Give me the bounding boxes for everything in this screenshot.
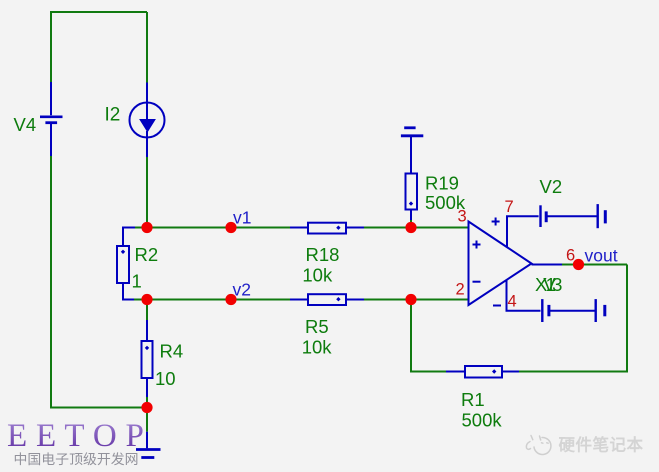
op-amp X3 [469, 222, 532, 306]
wire I2 vertical upper [146, 12, 148, 83]
battery V1 [542, 299, 605, 322]
wire v1 row right [364, 227, 469, 229]
svg-text:2: 2 [456, 280, 465, 298]
node junction R5-R1 [405, 294, 416, 305]
resistor R4 [142, 320, 153, 397]
svg-text:R5: R5 [305, 316, 329, 337]
battery V4 [40, 82, 63, 156]
resistor R2 [117, 228, 147, 300]
svg-text:R18: R18 [306, 244, 340, 265]
wire v2 row right [364, 299, 469, 301]
wire node to R1 [411, 300, 446, 372]
wire bottom right horizontal [519, 371, 628, 373]
svg-text:3: 3 [458, 207, 467, 225]
svg-text:V2: V2 [540, 176, 563, 197]
svg-text:E E T O P: E E T O P [7, 418, 144, 454]
svg-text:10k: 10k [302, 265, 333, 286]
wire I2 to node [146, 157, 148, 228]
svg-text:硬件笔记本: 硬件笔记本 [559, 435, 644, 455]
wire left vertical upper [50, 11, 52, 82]
svg-text:10k: 10k [302, 336, 333, 357]
ground flipped above R19 [401, 128, 423, 174]
resistor R1 [446, 366, 519, 378]
wire bottom-left horizontal [50, 407, 147, 409]
current source I2 [130, 83, 165, 158]
svg-text:R1: R1 [461, 389, 485, 410]
svg-text:7: 7 [505, 198, 514, 216]
svg-text:4: 4 [508, 292, 517, 310]
wire R19 to node [410, 220, 412, 228]
svg-text:中国电子顶级开发网: 中国电子顶级开发网 [14, 451, 139, 467]
pin 7 wire [492, 216, 539, 247]
resistor R18 [290, 223, 364, 234]
wire node2 to R4 [146, 300, 148, 321]
svg-text:vout: vout [585, 246, 618, 266]
node junction v2 [225, 294, 236, 305]
ground [136, 432, 161, 458]
resistor R5 [290, 294, 364, 305]
svg-text:R2: R2 [135, 244, 159, 265]
svg-text:V4: V4 [14, 114, 37, 135]
wire left vertical lower [50, 156, 52, 409]
wire v1 row left [147, 227, 290, 229]
watermark icon [526, 436, 551, 455]
svg-text:R4: R4 [160, 340, 184, 361]
pin 4 wire [493, 280, 541, 311]
wire R4 to node3 [146, 397, 148, 408]
wire node3 to ground [146, 408, 148, 432]
svg-text:1: 1 [132, 271, 142, 292]
wire vout [562, 264, 627, 266]
wire right vertical [626, 265, 628, 372]
op-amp output stub [532, 264, 564, 266]
resistor R19 [406, 174, 418, 221]
node junction v1 [225, 222, 236, 233]
svg-text:R19: R19 [425, 173, 459, 194]
node junction 1 [141, 222, 152, 233]
svg-text:10: 10 [155, 368, 176, 389]
wire v2 row left [147, 299, 290, 301]
node junction R19 [405, 222, 416, 233]
node junction vout [573, 259, 584, 270]
svg-text:I2: I2 [105, 105, 121, 126]
node junction ground [141, 402, 152, 413]
battery V2 [541, 204, 606, 228]
svg-text:500k: 500k [462, 409, 503, 430]
node junction 2 [141, 294, 152, 305]
wire top horizontal [51, 11, 147, 13]
svg-text:V3: V3 [543, 274, 562, 295]
